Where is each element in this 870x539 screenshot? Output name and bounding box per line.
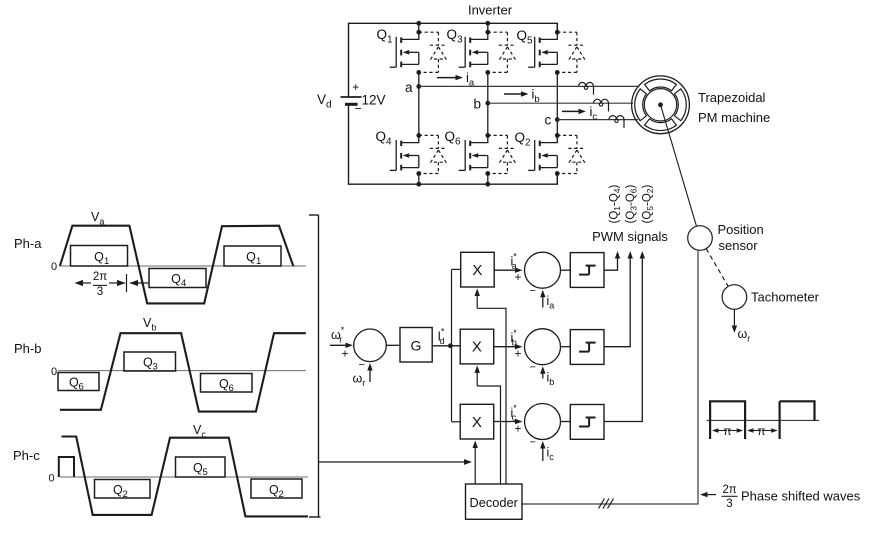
svg-text:2: 2 <box>279 489 284 500</box>
wire X to summing b <box>494 346 517 348</box>
svg-text:Tachometer: Tachometer <box>751 290 820 305</box>
wire hysteresis a output <box>604 251 620 270</box>
node id star <box>448 343 453 348</box>
current sensor phase a <box>579 82 594 94</box>
svg-text:PWM signals: PWM signals <box>592 229 668 244</box>
bracket waveforms <box>309 215 321 517</box>
wire source Q6 to rail <box>487 174 489 185</box>
machine rotor circle <box>644 89 676 121</box>
controller G <box>400 328 432 363</box>
svg-text:b: b <box>474 97 482 112</box>
machine stator segment right <box>675 89 687 121</box>
node c <box>555 117 560 122</box>
phase shifted square waves <box>707 401 820 439</box>
svg-text:−: − <box>530 436 536 448</box>
node b <box>485 101 490 106</box>
zero axis phase b <box>51 366 306 378</box>
summing junction current b <box>525 329 561 365</box>
svg-text:X: X <box>472 339 482 356</box>
wire hysteresis c output <box>604 251 645 422</box>
arrow ib <box>504 93 523 95</box>
svg-text:3: 3 <box>726 498 732 510</box>
three-phase slash marks <box>599 499 614 509</box>
wire X to summing c <box>494 421 517 423</box>
node drain Q3 <box>485 30 490 35</box>
svg-text:a: a <box>405 80 413 95</box>
svg-text:2π: 2π <box>722 484 736 496</box>
arrow ia <box>437 77 458 79</box>
wire source Q2 to rail <box>556 174 558 185</box>
svg-text:Q: Q <box>193 461 203 475</box>
wire summing to G <box>386 344 400 346</box>
svg-text:5: 5 <box>203 467 208 478</box>
box Q6 first <box>58 373 99 393</box>
svg-text:Q: Q <box>246 250 256 264</box>
wire summing to hysteresis a <box>561 269 571 271</box>
svg-text:Q4: Q4 <box>376 129 393 148</box>
svg-text:Q5: Q5 <box>517 28 534 47</box>
wire leg Q1 to phase node <box>418 72 420 135</box>
PM machine outer circle <box>632 76 690 134</box>
arrow omega r feedback <box>369 368 371 382</box>
box Q3 <box>124 352 176 373</box>
svg-text:4: 4 <box>181 278 186 289</box>
machine shaft center <box>658 102 663 107</box>
svg-text:+: + <box>515 422 522 436</box>
wire motor shaft to position sensor <box>661 105 697 227</box>
svg-text:(Q1-Q4): (Q1-Q4) <box>609 184 623 223</box>
svg-text:i*b: i*b <box>511 328 518 348</box>
arrow 2pi/3 annotation <box>705 494 716 496</box>
wire id star bus <box>452 269 461 421</box>
waveform Va <box>60 226 293 304</box>
svg-text:Q: Q <box>143 356 153 370</box>
svg-text:Q: Q <box>69 376 79 390</box>
wire decoder to X phase c <box>474 446 476 484</box>
box Q6 second <box>201 374 253 395</box>
machine stator segment left <box>635 89 647 121</box>
svg-text:i*c: i*c <box>511 403 518 423</box>
node drain Q2 <box>555 133 560 138</box>
summing junction current a <box>525 252 561 288</box>
multiplier X phase b <box>460 329 494 364</box>
svg-text:12V: 12V <box>362 93 386 108</box>
svg-text:(Q3-Q6): (Q3-Q6) <box>625 184 639 223</box>
wire hysteresis b output <box>604 251 633 347</box>
wire G to multipliers <box>432 345 461 347</box>
svg-text:+: + <box>342 347 349 361</box>
svg-text:ia: ia <box>547 294 555 311</box>
node source Q4 <box>416 171 421 176</box>
hysteresis controller phase c <box>570 405 604 440</box>
tachometer <box>722 285 747 310</box>
multiplier X phase c <box>460 404 494 439</box>
svg-text:2π: 2π <box>93 271 107 283</box>
svg-text:ωr: ωr <box>738 327 751 344</box>
zero axis phase c <box>49 473 308 485</box>
svg-text:I*d: I*d <box>438 327 445 347</box>
svg-text:π: π <box>758 426 766 438</box>
svg-text:6: 6 <box>229 383 234 394</box>
node top rail leg A <box>416 21 421 26</box>
wire bottom DC rail <box>349 104 558 184</box>
wire top DC rail <box>349 23 558 97</box>
wire drain Q1 <box>418 23 420 32</box>
decoder <box>466 484 523 519</box>
wire position sensor to decoder <box>522 250 698 504</box>
svg-text:ib: ib <box>547 371 555 388</box>
svg-text:+: + <box>515 347 522 361</box>
svg-text:ic: ic <box>547 446 555 463</box>
svg-text:0: 0 <box>49 473 55 485</box>
svg-text:1: 1 <box>256 256 261 267</box>
small pulse phase c <box>59 457 74 477</box>
arrow ib feedback <box>542 371 544 378</box>
hysteresis controller phase a <box>570 253 604 288</box>
svg-text:Q2: Q2 <box>515 130 532 149</box>
svg-text:Q1: Q1 <box>377 27 394 46</box>
transistor Q1 <box>390 32 419 67</box>
machine stator segment top <box>645 79 677 91</box>
multiplier X phase a <box>461 252 495 287</box>
node top rail leg B <box>485 21 490 26</box>
svg-text:−: − <box>530 285 536 297</box>
svg-text:Ph-a: Ph-a <box>14 236 42 251</box>
annotation 2pi/3 span <box>75 271 149 298</box>
svg-text:c: c <box>545 113 552 128</box>
current sensor phase c <box>609 116 624 128</box>
transistor Q4 <box>390 135 419 170</box>
box Q2 first <box>95 480 151 501</box>
wire phase c <box>557 119 638 121</box>
svg-text:PM machine: PM machine <box>698 110 770 125</box>
svg-text:−: − <box>359 359 365 371</box>
svg-text:1: 1 <box>104 256 109 267</box>
svg-text:X: X <box>472 414 482 431</box>
arrow ic feedback <box>542 446 544 461</box>
node drain Q1 <box>416 30 421 35</box>
svg-text:(Q5-Q2): (Q5-Q2) <box>641 184 655 223</box>
svg-text:Q: Q <box>269 483 279 497</box>
node source Q3 <box>485 70 490 75</box>
svg-text:Vd: Vd <box>317 92 332 111</box>
arrow ic <box>562 110 581 112</box>
node drain Q6 <box>485 133 490 138</box>
box Q4 <box>149 269 206 290</box>
box Q2 second <box>251 479 302 500</box>
battery Vd <box>341 80 362 116</box>
summing junction current c <box>525 404 561 440</box>
svg-text:0: 0 <box>51 366 57 378</box>
svg-text:Phase shifted waves: Phase shifted waves <box>741 489 861 504</box>
hysteresis controller phase b <box>570 330 604 365</box>
svg-text:0: 0 <box>51 261 57 273</box>
zero axis phase a <box>51 261 306 273</box>
svg-text:−: − <box>530 362 536 374</box>
arrow pi span 1 <box>712 426 743 438</box>
svg-text:Ph-b: Ph-b <box>14 341 41 356</box>
node source Q5 <box>555 70 560 75</box>
wire bracket to decoder arrow <box>319 461 467 463</box>
wire decoder to X phase b <box>475 365 501 484</box>
wire summing to hysteresis b <box>561 346 571 348</box>
freewheeling diode of Q2 <box>557 135 585 173</box>
node bottom rail leg B <box>485 182 490 187</box>
svg-text:Q: Q <box>219 377 229 391</box>
node source Q1 <box>416 70 421 75</box>
svg-text:Ph-c: Ph-c <box>13 448 40 463</box>
svg-text:+: + <box>352 80 359 94</box>
label 2pi over 3 <box>722 484 738 510</box>
freewheeling diode of Q3 <box>488 32 516 72</box>
wire summing to hysteresis c <box>561 421 571 423</box>
svg-text:Q6: Q6 <box>445 129 462 148</box>
svg-text:ωr: ωr <box>353 372 366 389</box>
freewheeling diode of Q5 <box>557 32 585 72</box>
svg-text:π: π <box>724 426 732 438</box>
svg-text:Q: Q <box>171 272 181 286</box>
node bottom rail leg A <box>416 182 421 187</box>
wire drain Q3 <box>487 23 489 32</box>
machine stator segment bottom <box>645 119 677 131</box>
svg-text:sensor: sensor <box>719 238 759 253</box>
svg-text:3: 3 <box>153 362 158 373</box>
svg-text:+: + <box>515 270 522 284</box>
box Q1 first <box>71 246 128 268</box>
transistor Q5 <box>528 32 557 67</box>
wire decoder to X phase a <box>475 289 507 485</box>
arrow pi span 2 <box>747 426 778 438</box>
svg-text:6: 6 <box>79 382 84 393</box>
box Q5 <box>176 457 226 478</box>
svg-text:Q3: Q3 <box>447 27 464 46</box>
transistor Q2 <box>528 135 557 170</box>
svg-text:Q: Q <box>94 250 104 264</box>
wire drain Q5 <box>556 23 558 32</box>
arrow ia feedback <box>542 295 544 308</box>
svg-text:2: 2 <box>123 489 128 500</box>
svg-text:Position: Position <box>718 222 764 237</box>
arrow tachometer output <box>733 309 735 327</box>
wire source Q4 to rail <box>418 174 420 185</box>
current sensor phase b <box>594 99 609 111</box>
waveform Vc <box>62 437 308 517</box>
svg-text:ω*r: ω*r <box>331 325 345 345</box>
dashed shaft position sensor to tachometer <box>706 249 728 287</box>
svg-text:−: − <box>355 102 362 116</box>
svg-text:Trapezoidal: Trapezoidal <box>698 90 766 105</box>
svg-text:3: 3 <box>97 286 103 298</box>
waveform Vb <box>60 333 306 411</box>
svg-text:Vb: Vb <box>143 316 156 333</box>
node drain Q4 <box>416 133 421 138</box>
svg-text:ia: ia <box>466 70 475 89</box>
node drain Q5 <box>555 30 560 35</box>
svg-text:i*a: i*a <box>511 252 518 272</box>
position sensor <box>688 226 713 251</box>
transistor Q6 <box>459 135 488 170</box>
wire X to summing a <box>494 269 517 271</box>
transistor Q3 <box>459 32 488 67</box>
node source Q6 <box>485 171 490 176</box>
summing junction speed <box>354 329 387 362</box>
box Q1 second <box>224 246 281 267</box>
freewheeling diode of Q4 <box>419 135 447 173</box>
wire leg Q3 to phase node <box>487 72 489 135</box>
freewheeling diode of Q1 <box>419 32 447 72</box>
freewheeling diode of Q6 <box>488 135 516 173</box>
node a <box>416 84 421 89</box>
wire leg Q5 to phase node <box>556 72 558 135</box>
svg-text:X: X <box>472 262 482 279</box>
arrow omega r ref input <box>330 344 348 346</box>
node source Q2 <box>555 171 560 176</box>
svg-text:G: G <box>411 338 422 354</box>
svg-text:ib: ib <box>532 87 540 106</box>
label omega r star <box>331 325 345 345</box>
svg-text:Decoder: Decoder <box>470 495 519 510</box>
wire phase a <box>419 85 638 87</box>
svg-text:Inverter: Inverter <box>468 3 513 18</box>
svg-text:Q: Q <box>113 483 123 497</box>
svg-text:Va: Va <box>91 210 104 227</box>
wire phase b <box>488 102 633 104</box>
